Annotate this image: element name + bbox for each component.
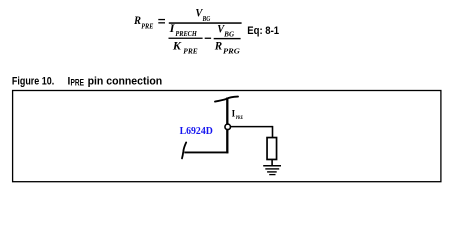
figure frame [13,91,441,182]
ground symbol [263,166,281,175]
svg-text:K: K [172,39,182,53]
symbol RPRE (left side) [133,15,154,31]
wire down into resistor [272,126,274,138]
svg-text:PRE: PRE [236,115,243,121]
IC L6924D boundary: bottom edge wire [184,151,228,153]
denominator term IPRECH [169,23,198,38]
IC L6924D boundary: right edge wire below pin [226,130,228,154]
numerator VBG [195,8,210,24]
break mark at left of IC bottom edge [182,142,186,158]
label L6924D [180,125,213,137]
svg-text:R: R [133,15,141,27]
svg-text:PRE: PRE [71,78,85,88]
minus sign [205,38,211,39]
main fraction bar [169,22,242,24]
denominator term RPRG [214,38,240,55]
svg-text:R: R [214,38,222,52]
equals sign [158,19,165,24]
denominator term KPRE [172,39,198,56]
wire resistor to ground [271,159,273,166]
svg-text:pin connection: pin connection [88,75,163,87]
IC L6924D boundary: right edge wire [226,98,228,124]
equation 8-1: RPRE = VBG / (IPRECH/KPRE - VBG/RPRG) [133,8,242,56]
wire from pin node to resistor (horizontal) [230,126,272,128]
svg-text:BG: BG [223,30,234,38]
equation label Eq: 8-1 [247,25,279,37]
fraction bar under IPRECH [169,38,203,39]
svg-text:BG: BG [202,15,211,23]
resistor RPRE body [267,138,277,160]
svg-text:PRE: PRE [141,23,153,31]
svg-text:PRECH: PRECH [175,30,197,38]
svg-text:L6924D: L6924D [180,125,213,137]
pin node IPRE (open circle) [225,124,231,130]
svg-text:I: I [169,23,175,35]
svg-text:PRE: PRE [183,47,198,55]
figure caption: Figure 10. IPRE pin connection [12,75,162,87]
denominator term VBG [217,24,234,39]
svg-text:PRG: PRG [223,48,240,56]
label IPRE [232,108,244,121]
svg-text:Figure 10.: Figure 10. [12,75,54,87]
svg-text:Eq: 8-1: Eq: 8-1 [247,25,279,37]
fraction bar under VBG [214,38,241,39]
break mark at top of IC edge [215,97,238,102]
